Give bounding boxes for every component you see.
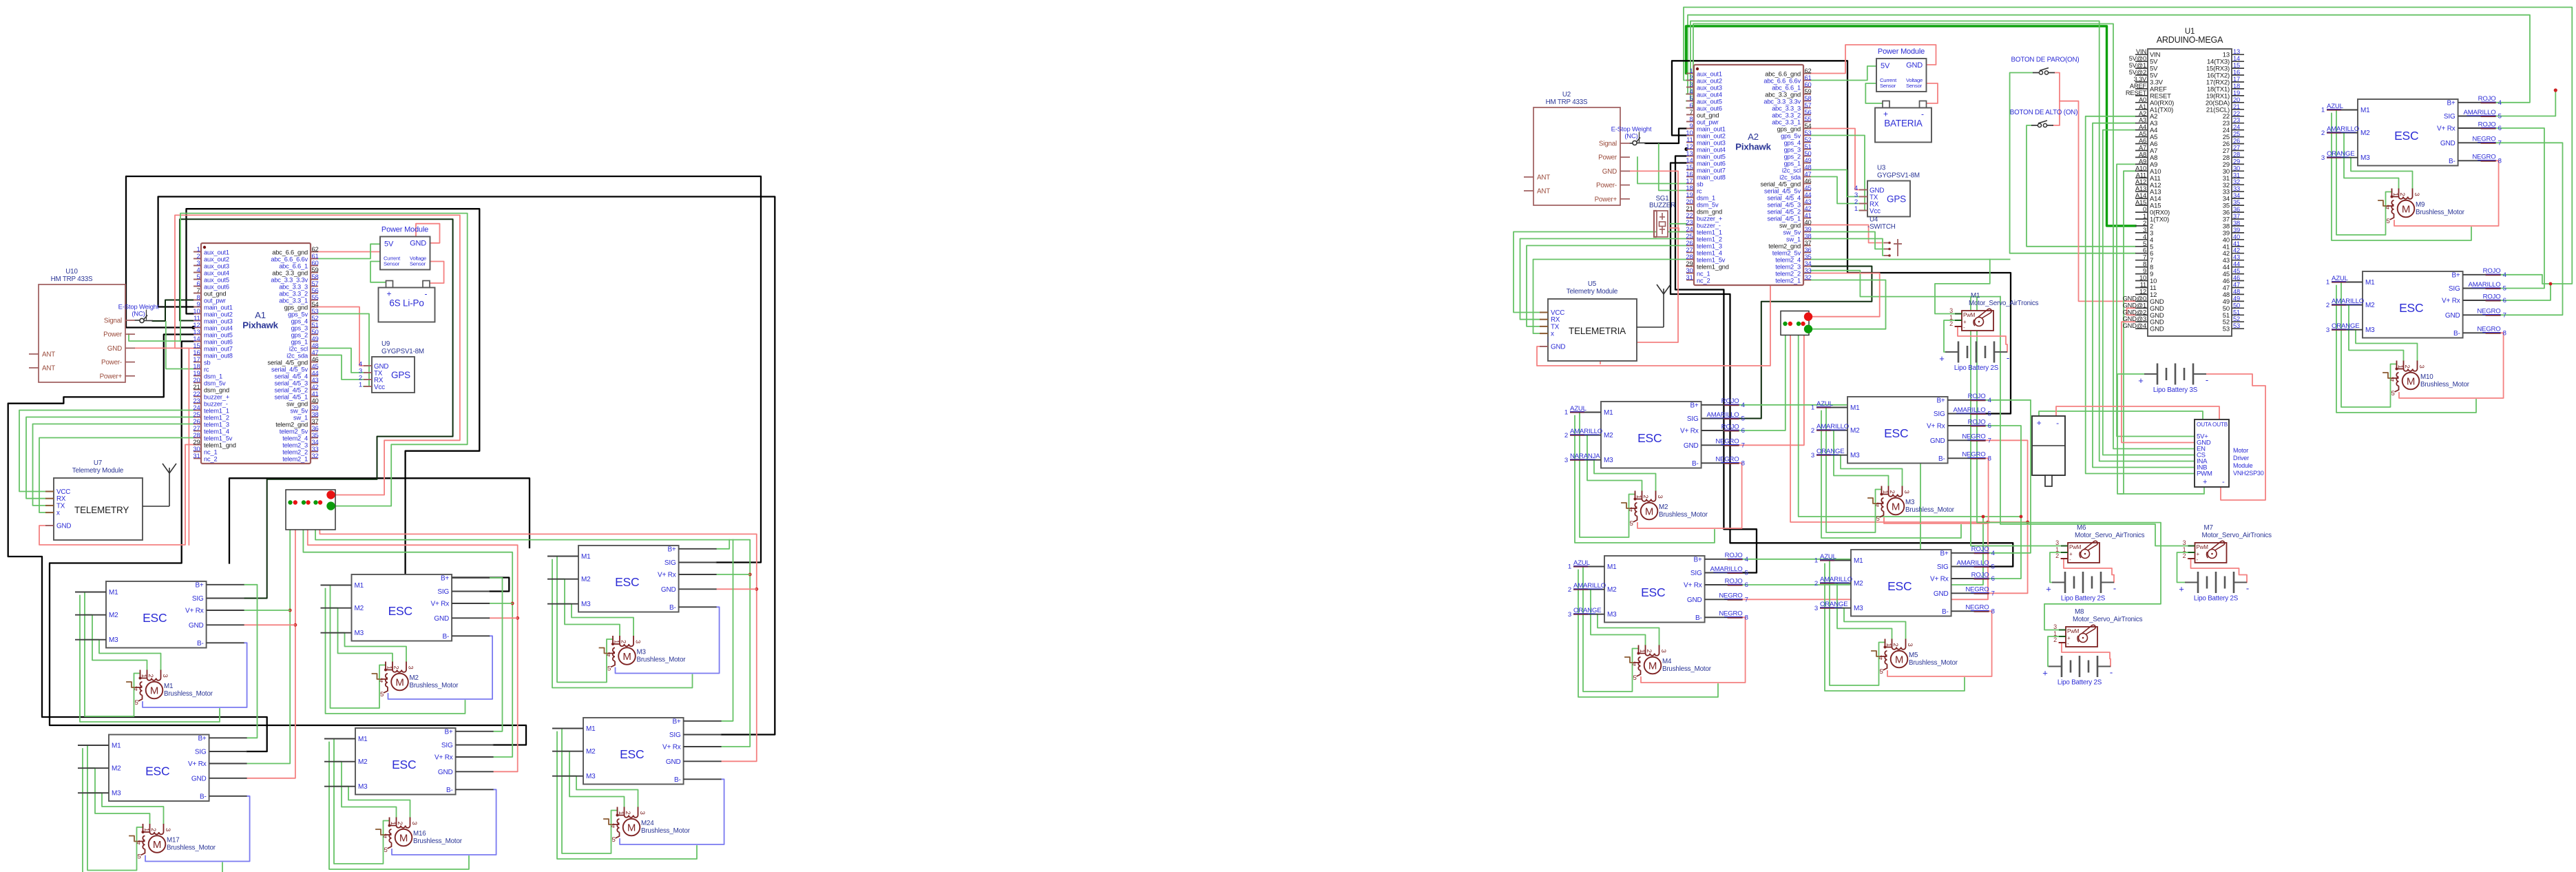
svg-text:NEGRO: NEGRO <box>1715 456 1739 464</box>
svg-text:Motor_Servo_AirTronics: Motor_Servo_AirTronics <box>2202 532 2272 539</box>
svg-text:ORANGE: ORANGE <box>1816 448 1845 455</box>
svg-text:-: - <box>1921 110 1924 119</box>
wire green ESCM4 bottom loop <box>1578 570 1718 698</box>
svg-text:M3: M3 <box>1604 457 1613 464</box>
svg-text:1: 1 <box>1814 557 1818 565</box>
svg-text:1: 1 <box>613 640 620 643</box>
svg-text:abc_6.6_1: abc_6.6_1 <box>1772 85 1801 92</box>
svg-text:4: 4 <box>1879 654 1883 662</box>
motor M16 <box>384 818 463 855</box>
svg-text:B+: B+ <box>1940 550 1948 557</box>
wire green i2c_sda to U3 RX <box>1811 177 1859 204</box>
svg-text:3: 3 <box>2321 154 2325 162</box>
svg-text:1: 1 <box>359 382 362 389</box>
wire green ESCM10 M1 to motor pin1 <box>2341 282 2397 408</box>
svg-text:PwM: PwM <box>2067 628 2080 634</box>
switch S2 E-Stop Weight (NC) <box>1611 126 1652 145</box>
svg-text:3: 3 <box>638 811 646 815</box>
svg-text:B-: B- <box>1692 460 1699 468</box>
svg-text:ESC: ESC <box>2399 301 2423 315</box>
svg-text:M1: M1 <box>355 582 364 590</box>
wire salmon M3r-M5 GND vertical <box>1986 440 2028 593</box>
esc ESC-M2r <box>1564 397 1746 468</box>
wire green telem2_1 to junction2 <box>1810 280 1886 329</box>
svg-text:aux_out3: aux_out3 <box>204 263 229 270</box>
esc ESC-M4 <box>1568 552 1749 622</box>
svg-text:sw_gnd: sw_gnd <box>1779 222 1801 229</box>
svg-text:aux_out4: aux_out4 <box>204 270 229 277</box>
svg-text:31: 31 <box>2233 172 2240 178</box>
svg-text:NEGRO: NEGRO <box>2477 326 2500 333</box>
svg-text:SIG: SIG <box>669 731 681 739</box>
wire green ESCM3 M1 to motor pin1 <box>1826 408 1882 533</box>
wire salmon ESCM2 B- wire <box>1637 463 1742 528</box>
wire green net to junction <box>180 214 468 506</box>
svg-text:main_out3: main_out3 <box>1697 140 1726 147</box>
svg-text:B+: B+ <box>1693 556 1701 563</box>
battery Lipo Battery 2S under M6 <box>2046 572 2116 603</box>
svg-text:2: 2 <box>620 640 627 643</box>
svg-text:31: 31 <box>193 452 200 459</box>
wire brown ESC1 motor pin4 stub <box>127 682 136 687</box>
esc ESC-M5 <box>1814 546 1996 616</box>
svg-text:A11: A11 <box>2136 172 2146 178</box>
svg-text:ROJO: ROJO <box>1725 577 1743 585</box>
svg-text:Brushless_Motor: Brushless_Motor <box>637 656 687 664</box>
svg-text:5: 5 <box>2498 113 2502 121</box>
svg-text:gps_3: gps_3 <box>291 325 308 332</box>
svg-text:abc_3.3_1: abc_3.3_1 <box>279 298 308 304</box>
wire salmon botons to GND@0 <box>2060 101 2135 302</box>
wire salmon U10 gnd down <box>135 348 189 545</box>
led junction board J2 <box>1781 311 1812 335</box>
wire gray signal2 to estop <box>1630 143 1633 144</box>
wire black branch across <box>229 478 530 563</box>
svg-text:Power Module: Power Module <box>381 226 428 234</box>
svg-text:Lipo Battery 3S: Lipo Battery 3S <box>2153 386 2198 394</box>
svg-text:3: 3 <box>1906 643 1914 647</box>
svg-text:44: 44 <box>2233 261 2240 268</box>
svg-text:V+ Rx: V+ Rx <box>434 754 453 762</box>
wire green servo M1 pin3 up <box>1935 260 1990 314</box>
esc ESC-M10 <box>2326 267 2507 338</box>
esc ESC16 <box>324 728 494 795</box>
svg-text:B-: B- <box>1695 614 1702 622</box>
wire green ESCM2 M3 to motor pin3 <box>1580 460 1656 491</box>
svg-text:1: 1 <box>2143 213 2146 220</box>
wire green ESC2 M1 to motor pin1 <box>331 585 386 709</box>
svg-text:telem1_gnd: telem1_gnd <box>1697 264 1729 271</box>
wire green servo M1 pin1 to bat+ <box>1944 320 1955 352</box>
svg-text:6: 6 <box>2143 247 2146 254</box>
svg-text:M3: M3 <box>1850 452 1860 459</box>
svg-text:5: 5 <box>2387 218 2390 225</box>
svg-text:ROJO: ROJO <box>2478 95 2496 103</box>
wire green B+ ESC3 up <box>717 540 730 549</box>
gps U9 GYGPSV1-8M <box>359 340 424 393</box>
svg-text:M2: M2 <box>1607 586 1617 594</box>
svg-text:main_out1: main_out1 <box>204 304 233 311</box>
svg-text:8: 8 <box>2143 261 2146 268</box>
wire salmon telem2_2 to junction2 <box>1810 273 1880 317</box>
wire black net main_out2 to ESC-M2 SIG <box>187 209 510 591</box>
servo M8 AirTronics <box>2053 608 2142 647</box>
svg-text:telem1_5v: telem1_5v <box>1697 257 1726 264</box>
svg-text:8: 8 <box>2498 158 2502 165</box>
switch U4 <box>1867 216 1902 257</box>
wire green servo M7 pin1 to bat+ <box>2177 552 2188 583</box>
wire salmon jb2 bus to M4 GND <box>1790 328 2028 523</box>
svg-text:abc_3.3_3.3v: abc_3.3_3.3v <box>1763 98 1801 105</box>
svg-text:i2c_sda: i2c_sda <box>1779 174 1801 181</box>
svg-text:2: 2 <box>2055 552 2059 559</box>
svg-text:7: 7 <box>1741 442 1745 450</box>
svg-text:-: - <box>2246 583 2249 594</box>
svg-text:B-: B- <box>1938 455 1945 463</box>
svg-text:sw_5v: sw_5v <box>291 408 308 415</box>
svg-text:telem1_4: telem1_4 <box>204 428 229 435</box>
svg-text:32: 32 <box>1805 273 1812 281</box>
motor M10 <box>2391 361 2470 398</box>
svg-text:4: 4 <box>1633 661 1636 668</box>
svg-text:ESC: ESC <box>1887 579 1912 593</box>
svg-text:GND: GND <box>56 523 71 530</box>
wire green telem1_1 to TEL VCC <box>19 411 193 492</box>
svg-text:GND: GND <box>1930 437 1945 445</box>
wire green power2 branch <box>1637 157 1686 183</box>
svg-text:3: 3 <box>407 666 415 669</box>
svg-text:33: 33 <box>2233 185 2240 192</box>
svg-text:5V@1: 5V@1 <box>2129 62 2146 69</box>
svg-text:GND: GND <box>1684 442 1699 450</box>
junction dot M4 V+Rx bus <box>1982 515 1985 519</box>
svg-text:gps_3: gps_3 <box>1784 147 1801 154</box>
svg-text:M1: M1 <box>1607 563 1617 571</box>
wire green i2c_scl to GPS TX <box>318 349 364 373</box>
svg-text:M: M <box>1648 661 1657 672</box>
svg-text:Motor_Servo_AirTronics: Motor_Servo_AirTronics <box>2073 616 2143 623</box>
svg-text:NARANJA: NARANJA <box>1570 453 1600 460</box>
wire green M10 V+Rx up <box>2501 284 2551 300</box>
svg-text:telem2_3: telem2_3 <box>1775 264 1801 271</box>
svg-text:-: - <box>2056 418 2059 428</box>
svg-text:1: 1 <box>1885 643 1892 647</box>
wire green ESCM2 M2 to motor pin2 <box>1580 435 1642 491</box>
svg-text:serial_4/5_gnd: serial_4/5_gnd <box>1761 181 1801 188</box>
svg-text:telem1_1: telem1_1 <box>204 408 229 415</box>
svg-text:+: + <box>2138 375 2143 386</box>
svg-text:B+: B+ <box>1690 402 1698 409</box>
svg-text:5: 5 <box>1876 515 1880 523</box>
svg-text:+: + <box>2042 668 2047 678</box>
wire green alto left <box>2027 125 2135 247</box>
wire green sw_5v to U4 <box>1811 232 1884 249</box>
svg-text:serial_4/5_1: serial_4/5_1 <box>275 394 308 401</box>
svg-text:0: 0 <box>2143 206 2146 213</box>
wire darkgreen net estop to out_pwr <box>153 300 194 322</box>
wire green ESCM9 M1 to motor pin1 <box>2336 110 2392 236</box>
svg-text:nc_2: nc_2 <box>204 456 217 463</box>
svg-text:AMARILLO: AMARILLO <box>1816 423 1849 430</box>
svg-text:ESC: ESC <box>2394 129 2418 143</box>
wire green abc_6.6_6.6v to PM 5V <box>318 244 380 258</box>
svg-text:telem1_2: telem1_2 <box>1697 236 1722 243</box>
svg-text:-: - <box>425 289 428 299</box>
svg-text:M1: M1 <box>1971 292 1980 300</box>
svg-text:3: 3 <box>1949 307 1953 314</box>
svg-text:telem2_5v: telem2_5v <box>280 428 308 435</box>
svg-text:M1: M1 <box>581 553 591 561</box>
svg-text:M17: M17 <box>167 837 180 844</box>
svg-text:3: 3 <box>1903 490 1910 494</box>
svg-text:-: - <box>2206 375 2208 385</box>
junction dot ESC1 GND <box>294 623 297 627</box>
wire salmon servo M7 pin2 to bat- <box>2188 559 2248 583</box>
wire black net main_out5 to ESC-M17 SIG <box>8 335 267 752</box>
svg-text:abc_3.3_gnd: abc_3.3_gnd <box>272 270 308 277</box>
svg-text:2: 2 <box>392 666 400 669</box>
svg-text:6: 6 <box>2503 297 2506 304</box>
svg-text:39: 39 <box>2233 227 2240 233</box>
svg-text:17: 17 <box>2233 76 2240 83</box>
wire salmon servo M6 pin2 to bat- <box>2061 559 2114 583</box>
wire salmon gps_gnd to U3 GND <box>1811 129 1859 190</box>
svg-text:38: 38 <box>2233 220 2240 227</box>
svg-text:1: 1 <box>386 666 393 669</box>
svg-text:serial_4/5_5v: serial_4/5_5v <box>271 366 308 373</box>
svg-text:1: 1 <box>389 822 397 825</box>
wire green arduino A4 to driver CS <box>2103 130 2195 455</box>
wire green B+ M24 up <box>722 540 733 721</box>
svg-text:M2: M2 <box>1604 432 1613 439</box>
junction dot ESC1 V+Rx <box>289 609 292 612</box>
svg-text:(NC): (NC) <box>1624 133 1637 141</box>
svg-text:4: 4 <box>2503 271 2507 279</box>
svg-text:RESET: RESET <box>2126 90 2147 96</box>
svg-text:M: M <box>1895 654 1903 666</box>
wire darkgreen telem2_3 to ESC-M2r SIG <box>1739 267 1872 419</box>
svg-text:5: 5 <box>1630 520 1633 528</box>
svg-text:5: 5 <box>612 836 616 844</box>
svg-text:sb: sb <box>204 360 210 366</box>
svg-text:VIN: VIN <box>2136 48 2146 55</box>
svg-text:rc: rc <box>1697 188 1702 195</box>
wire green ESCM5 M2 to motor pin2 <box>1830 583 1892 639</box>
wire green ESCM10 bottom loop <box>2336 286 2476 413</box>
svg-text:NEGRO: NEGRO <box>2472 154 2495 161</box>
wire green ESC2 M2 to motor pin2 <box>331 608 393 662</box>
svg-text:SIG: SIG <box>1934 411 1945 418</box>
svg-text:AZUL: AZUL <box>1570 405 1587 413</box>
wire green ESCM4 M2 to motor pin2 <box>1583 590 1646 645</box>
wire green M4 V+Rx drop <box>1743 517 1983 585</box>
svg-text:ROJO: ROJO <box>1968 393 1986 400</box>
svg-text:abc_3.3_2: abc_3.3_2 <box>1772 112 1801 119</box>
svg-text:abc_3.3_3.3v: abc_3.3_3.3v <box>271 277 308 284</box>
svg-text:aux_out5: aux_out5 <box>1697 98 1722 105</box>
wire green jb col2 V+Rx <box>303 504 512 757</box>
wire salmon arduino GND@3 to driver GND <box>2122 322 2195 442</box>
svg-text:serial_4/5_4: serial_4/5_4 <box>275 373 308 380</box>
svg-text:serial_4/5_2: serial_4/5_2 <box>1768 209 1801 216</box>
svg-text:+: + <box>1883 110 1888 119</box>
svg-text:Telemetry Module: Telemetry Module <box>1567 288 1618 295</box>
svg-text:GND@0: GND@0 <box>2123 295 2146 302</box>
motor M3 <box>607 636 686 673</box>
wire black net main_out6 to ESC-M16 SIG <box>50 342 526 745</box>
svg-text:Brushless_Motor: Brushless_Motor <box>167 844 216 852</box>
svg-text:Sensor: Sensor <box>1906 83 1923 89</box>
svg-text:3: 3 <box>2055 539 2059 546</box>
svg-text:14: 14 <box>2233 55 2240 62</box>
wire blue ESC1 B- wire <box>143 643 247 707</box>
svg-text:1: 1 <box>2326 279 2329 287</box>
svg-text:5: 5 <box>1988 411 1991 418</box>
flight controller A2 Pixhawk <box>1686 65 1811 285</box>
svg-text:aux_out6: aux_out6 <box>1697 105 1722 112</box>
wire brown ESC17 motor pin4 stub <box>129 836 139 842</box>
svg-text:A9: A9 <box>2139 158 2146 165</box>
svg-text:serial_4/5_gnd: serial_4/5_gnd <box>268 360 308 366</box>
svg-text:gps_5v: gps_5v <box>288 311 308 318</box>
wire salmon U2 gnd down <box>1600 171 1678 364</box>
svg-text:4: 4 <box>2386 204 2389 211</box>
svg-text:37: 37 <box>2233 213 2240 220</box>
wire salmon sw_gnd to U4 <box>1811 225 1884 243</box>
svg-text:Lipo Battery 2S: Lipo Battery 2S <box>2061 595 2106 603</box>
svg-text:M1: M1 <box>358 736 368 743</box>
svg-text:A13: A13 <box>2135 185 2146 192</box>
svg-text:GND: GND <box>2150 326 2164 333</box>
svg-text:aux_out2: aux_out2 <box>204 256 229 263</box>
svg-text:-SWITCH: -SWITCH <box>1867 223 1896 231</box>
wire green ESCM2 M1 to motor pin1 <box>1580 413 1635 538</box>
wire green paro left <box>2010 73 2135 253</box>
svg-text:telem2_5v: telem2_5v <box>1772 250 1801 257</box>
svg-text:Lipo Battery 2S: Lipo Battery 2S <box>2194 595 2239 603</box>
svg-text:2: 2 <box>1645 650 1653 653</box>
svg-text:B-: B- <box>197 640 204 647</box>
svg-text:2: 2 <box>1949 320 1953 327</box>
svg-text:Power+: Power+ <box>1595 196 1617 203</box>
svg-text:M: M <box>2402 204 2410 216</box>
svg-text:ROJO: ROJO <box>2483 267 2501 275</box>
svg-text:ESC: ESC <box>388 604 412 618</box>
svg-text:gps_gnd: gps_gnd <box>284 304 308 311</box>
esc ESC2 <box>321 574 490 641</box>
svg-text:SIG: SIG <box>195 749 207 756</box>
svg-text:1: 1 <box>1638 650 1646 653</box>
wire green ESCM5 bottom loop <box>1825 564 1965 692</box>
svg-text:52: 52 <box>2233 315 2240 322</box>
svg-text:12: 12 <box>2139 288 2146 295</box>
wire brown ESC3 motor pin4 stub <box>600 648 609 654</box>
svg-text:V+ Rx: V+ Rx <box>185 608 204 615</box>
svg-text:U4: U4 <box>1870 216 1878 224</box>
svg-text:gps_4: gps_4 <box>291 318 308 325</box>
wire salmon ESCM3 B- wire <box>1884 458 1989 523</box>
svg-text:4: 4 <box>1988 397 1992 404</box>
svg-text:53: 53 <box>2233 322 2240 329</box>
svg-text:2: 2 <box>2183 552 2186 559</box>
motor M3 right <box>1876 486 1955 523</box>
esc ESC-M9 <box>2321 95 2502 165</box>
svg-text:53: 53 <box>2223 326 2230 333</box>
svg-text:-: - <box>2007 353 2009 363</box>
svg-text:1: 1 <box>1811 404 1814 412</box>
svg-text:A1: A1 <box>2139 103 2146 110</box>
wire salmon ESCM4 B- wire <box>1641 617 1746 683</box>
svg-text:ESC: ESC <box>143 611 167 625</box>
svg-text:NEGRO: NEGRO <box>2477 308 2500 315</box>
svg-text:GND@2: GND@2 <box>2123 309 2146 315</box>
switch S1 E-Stop Weight (NC) <box>118 304 159 323</box>
svg-text:PwM: PwM <box>1963 312 1976 318</box>
svg-text:M3: M3 <box>581 601 591 608</box>
svg-text:M4: M4 <box>1662 658 1672 665</box>
svg-text:AZUL: AZUL <box>1816 400 1834 408</box>
dc motor <box>2032 416 2065 486</box>
svg-text:ANT: ANT <box>42 351 55 359</box>
svg-text:AREF: AREF <box>2130 83 2147 90</box>
svg-text:10: 10 <box>2139 275 2146 282</box>
svg-text:out_pwr: out_pwr <box>204 298 226 304</box>
svg-text:1: 1 <box>143 828 150 831</box>
svg-text:1: 1 <box>2391 193 2399 196</box>
svg-text:V+ Rx: V+ Rx <box>662 744 681 751</box>
svg-text:SIG: SIG <box>2449 285 2460 293</box>
svg-text:abc_6.6_6.6v: abc_6.6_6.6v <box>1763 78 1801 85</box>
svg-text:B+: B+ <box>2451 271 2460 279</box>
svg-text:ROJO: ROJO <box>1725 552 1743 559</box>
svg-text:B-: B- <box>2453 330 2460 338</box>
wire green ESCM9 M2 to motor pin2 <box>2336 133 2399 189</box>
svg-text:GND: GND <box>666 758 681 766</box>
svg-text:4: 4 <box>2498 99 2502 107</box>
svg-text:A8: A8 <box>2139 151 2146 158</box>
wire green telem right TX <box>1527 246 1686 326</box>
svg-text:18: 18 <box>2233 83 2240 90</box>
svg-text:telem1_2: telem1_2 <box>204 415 229 422</box>
svg-text:AMARILLO: AMARILLO <box>1707 411 1739 419</box>
svg-text:ESC: ESC <box>145 765 169 778</box>
svg-text:ARDUINO-MEGA: ARDUINO-MEGA <box>2157 35 2223 45</box>
svg-text:NEGRO: NEGRO <box>1719 610 1742 618</box>
svg-text:B-: B- <box>200 793 207 800</box>
svg-text:main_out7: main_out7 <box>204 346 233 353</box>
wire green arduino A9 to driver 5V+ <box>2117 164 2195 436</box>
radio U10 HM TRP 433S <box>29 268 135 382</box>
svg-text:Pixhawk: Pixhawk <box>1735 142 1771 152</box>
svg-text:B+: B+ <box>2447 99 2455 107</box>
svg-text:aux_out3: aux_out3 <box>1697 85 1722 92</box>
wire green arduino A3 to driver INB <box>2093 123 2195 468</box>
svg-text:B-: B- <box>1942 608 1949 616</box>
svg-text:telem1_gnd: telem1_gnd <box>204 442 236 449</box>
svg-text:GND: GND <box>661 586 676 594</box>
svg-text:M8: M8 <box>2075 608 2084 616</box>
svg-text:sw_1: sw_1 <box>1786 236 1801 243</box>
svg-text:Brushless_Motor: Brushless_Motor <box>2416 209 2465 216</box>
wire green servo M6 pin1 to bat+ <box>2050 552 2061 583</box>
svg-text:U5: U5 <box>1588 280 1597 288</box>
svg-text:ROJO: ROJO <box>2478 121 2496 128</box>
wire green abc_6.6_6.6v to PM2 5V <box>1811 66 1876 81</box>
svg-text:-: - <box>2110 667 2113 678</box>
svg-text:sb: sb <box>1697 181 1703 188</box>
svg-text:i2c_scl: i2c_scl <box>1782 167 1801 174</box>
wire green arduino A2 to driver PWM <box>2086 116 2195 474</box>
